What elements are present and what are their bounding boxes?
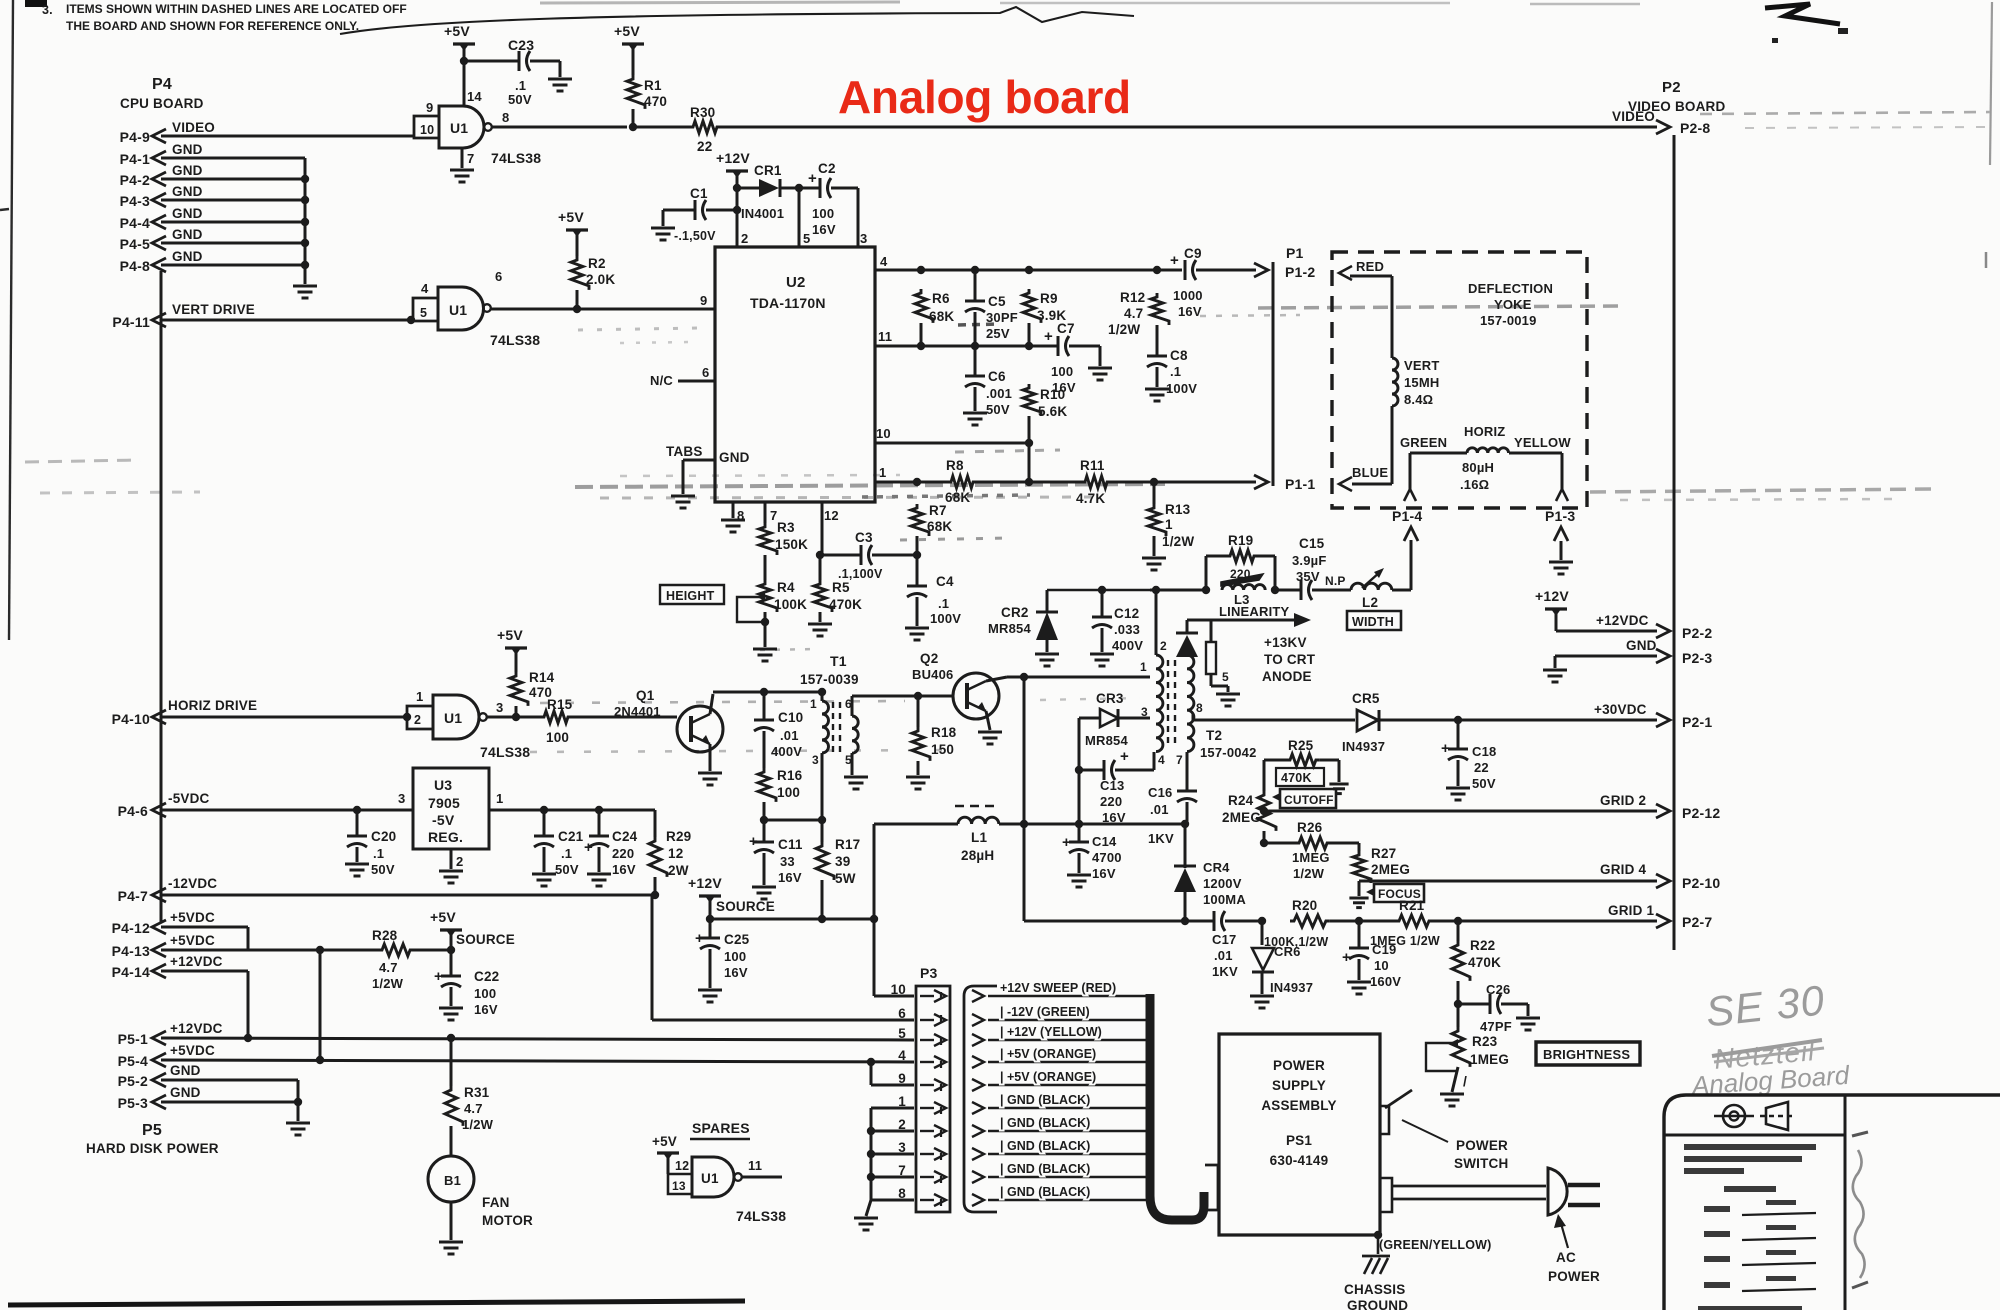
wire GND to P2-3 bbox=[1555, 656, 1657, 668]
label P2-2 bbox=[1682, 625, 1712, 641]
label U1A 74LS38 bbox=[491, 150, 541, 166]
wire -12VDC row bbox=[161, 894, 655, 897]
note text line 1 bbox=[66, 2, 407, 16]
label C1 bbox=[690, 186, 708, 201]
junction GND bus bbox=[301, 261, 309, 269]
connector pin P4-2 arrow bbox=[152, 172, 166, 186]
svg-text:IN4937: IN4937 bbox=[1270, 980, 1313, 995]
label C19 bbox=[1370, 942, 1401, 989]
junction R4 bottom bbox=[761, 618, 769, 626]
ground C21 bbox=[532, 874, 556, 886]
svg-text:157-0039: 157-0039 bbox=[800, 672, 859, 687]
wire Q2 collector up bbox=[986, 677, 1024, 681]
wire R24 bottom to R26 bbox=[1263, 831, 1266, 843]
wire P5-1 +12VDC row bbox=[161, 1038, 914, 1040]
wire C13 to T2 pin4 bbox=[1115, 752, 1154, 770]
svg-text:VIDEO BOARD: VIDEO BOARD bbox=[1628, 99, 1726, 114]
wire +12V down bbox=[736, 174, 739, 247]
svg-text:P4-5: P4-5 bbox=[120, 236, 150, 252]
svg-text:GND: GND bbox=[172, 206, 203, 221]
wire HORIZ DRIVE to U1 gate C bbox=[161, 716, 408, 719]
wire tie R16 to R17 bbox=[764, 819, 822, 822]
wire U3 output row bbox=[489, 809, 655, 812]
svg-text:C6: C6 bbox=[988, 369, 1006, 384]
svg-text:2: 2 bbox=[741, 231, 748, 246]
svg-text:16V: 16V bbox=[612, 862, 636, 877]
junction R17 source bbox=[818, 915, 826, 923]
connector pin P5-1 label bbox=[118, 1031, 148, 1047]
svg-text:| +12V (YELLOW): | +12V (YELLOW) bbox=[1000, 1025, 1102, 1039]
svg-text:R22: R22 bbox=[1470, 938, 1495, 953]
junction +12V source bbox=[706, 915, 714, 923]
wire P3 pin9 jog bbox=[871, 1062, 914, 1085]
label SOURCE mid bbox=[716, 899, 775, 914]
wire U1A pin7 to ground bbox=[462, 148, 474, 168]
svg-text:GND: GND bbox=[172, 249, 203, 264]
ground FOCUS bbox=[1349, 898, 1368, 908]
label U3 bbox=[428, 777, 463, 845]
capacitor C14 bbox=[1062, 824, 1089, 873]
label T2 pin1 bbox=[1140, 660, 1147, 674]
label U3 pin1 bbox=[496, 791, 503, 806]
wire GREEN to HORIZ coil bbox=[1410, 453, 1467, 489]
label P3 harness | +12V (YELLOW) bbox=[1000, 1025, 1102, 1039]
label HEIGHT box bbox=[660, 585, 724, 604]
wire U1D output bbox=[742, 1176, 782, 1179]
resistor R18 bbox=[912, 696, 930, 761]
transistor Q2 bbox=[953, 673, 999, 719]
label U1B pin4 bbox=[421, 281, 429, 296]
svg-text:P4-3: P4-3 bbox=[120, 193, 150, 209]
svg-text:2.0K: 2.0K bbox=[586, 272, 615, 287]
svg-text:R5: R5 bbox=[832, 580, 850, 595]
wire R21 to grid1 arrow bbox=[1433, 920, 1657, 923]
label R26 bbox=[1292, 820, 1330, 881]
svg-text:3: 3 bbox=[812, 753, 819, 767]
label YELLOW bbox=[1514, 435, 1571, 450]
svg-text:1KV: 1KV bbox=[1148, 831, 1174, 846]
label U2 pin5 bbox=[803, 231, 810, 246]
label C16 bbox=[1148, 785, 1174, 846]
svg-text:R25: R25 bbox=[1288, 738, 1314, 753]
arrow P3 right pin bbox=[972, 1079, 984, 1091]
svg-text:BU406: BU406 bbox=[912, 667, 953, 682]
label P3 pin 10 bbox=[891, 982, 906, 997]
capacitor C13 bbox=[1079, 748, 1129, 780]
op-amp U1 gate D body bbox=[692, 1157, 742, 1197]
wire U2 pin1 row left bbox=[875, 481, 947, 484]
svg-text:13: 13 bbox=[672, 1179, 686, 1193]
node GND label right bbox=[1626, 638, 1657, 653]
wire Q1 emitter to ground bbox=[709, 744, 712, 771]
resistor R7 bbox=[911, 504, 929, 555]
svg-text:P4-11: P4-11 bbox=[112, 314, 150, 330]
svg-text:P2-7: P2-7 bbox=[1682, 914, 1712, 930]
sheet border left bbox=[0, 0, 13, 640]
connector pin P4-6 arrow bbox=[152, 803, 166, 817]
wire GND P4-8 bbox=[161, 264, 305, 267]
wire +12V stem bbox=[709, 899, 712, 919]
svg-text:68K: 68K bbox=[927, 519, 952, 534]
svg-text:1KV: 1KV bbox=[1212, 964, 1238, 979]
svg-text:100: 100 bbox=[812, 206, 834, 221]
junction R26 left bbox=[1260, 839, 1268, 847]
label LINEARITY bbox=[1219, 604, 1290, 619]
arrow AC plug callout bbox=[1554, 1214, 1568, 1248]
connector pin P5-3 arrow bbox=[152, 1095, 166, 1109]
wire P5-4 +5VDC row bbox=[161, 1060, 914, 1062]
resistor R22 bbox=[1452, 921, 1470, 981]
svg-text:+5V: +5V bbox=[652, 1134, 677, 1149]
svg-text:4: 4 bbox=[880, 254, 888, 269]
arrow +13KV bbox=[1294, 613, 1311, 627]
top edge scan dashes bbox=[540, 2, 1640, 4]
svg-text:P4-13: P4-13 bbox=[112, 943, 150, 959]
svg-text:CUTOFF: CUTOFF bbox=[1284, 793, 1334, 807]
svg-text:TDA-1170N: TDA-1170N bbox=[750, 295, 826, 311]
label CR4 bbox=[1203, 860, 1246, 907]
label R28 bbox=[372, 928, 404, 991]
inductor L2 variable bbox=[1351, 568, 1392, 590]
svg-text:3: 3 bbox=[496, 700, 503, 715]
connector pin P4-9 label bbox=[120, 129, 150, 145]
label U1D pin11 bbox=[748, 1158, 762, 1173]
op-amp U1 gate D input box bbox=[668, 1174, 692, 1194]
wire C23 left bbox=[464, 60, 519, 63]
resistor R28 bbox=[378, 944, 414, 956]
svg-text:3.: 3. bbox=[42, 3, 53, 17]
svg-text:P2-10: P2-10 bbox=[1682, 875, 1720, 891]
label BRIGHTNESS box bbox=[1536, 1042, 1640, 1065]
resistor R1 bbox=[627, 75, 645, 109]
resistor R27 bbox=[1353, 843, 1371, 883]
svg-text:.1: .1 bbox=[1170, 364, 1181, 379]
transformer T1 core bbox=[833, 702, 840, 752]
svg-text:C4: C4 bbox=[936, 574, 954, 589]
junction C10 top bbox=[760, 688, 768, 696]
svg-text:2: 2 bbox=[414, 713, 421, 727]
svg-text:C9: C9 bbox=[1184, 246, 1202, 261]
junction GND bus bbox=[301, 239, 309, 247]
inductor L3 bbox=[1222, 585, 1265, 590]
junction L1 Q2 vertical bbox=[1020, 820, 1028, 828]
wire R12 to C8 bbox=[1156, 325, 1159, 356]
junction GND bus bbox=[301, 218, 309, 226]
arrow P3 pin 4 bbox=[920, 1056, 946, 1068]
junction R8 R11 node bbox=[1025, 478, 1033, 486]
diode CR5 bbox=[1357, 710, 1379, 731]
arrow P3 right pin bbox=[972, 1056, 984, 1068]
node +30VDC label bbox=[1594, 702, 1647, 717]
svg-text:P4-2: P4-2 bbox=[120, 172, 150, 188]
arrow P3 pin 1 bbox=[920, 1102, 946, 1114]
svg-text:BRIGHTNESS: BRIGHTNESS bbox=[1543, 1047, 1630, 1062]
svg-text:22: 22 bbox=[697, 139, 712, 154]
svg-text:1200V: 1200V bbox=[1203, 876, 1242, 891]
svg-text:C17: C17 bbox=[1212, 932, 1236, 947]
svg-text:470: 470 bbox=[644, 94, 667, 109]
wire CR1 cathode to pin5 node bbox=[780, 187, 799, 190]
power +12V for U2 bbox=[716, 150, 750, 178]
junction T2 pin2 top bbox=[1152, 586, 1160, 594]
svg-text:220: 220 bbox=[1100, 794, 1122, 809]
svg-text:C3: C3 bbox=[855, 530, 873, 545]
svg-text:+: + bbox=[584, 839, 593, 856]
svg-text:+: + bbox=[808, 170, 817, 187]
resistor bleeder bbox=[1206, 620, 1216, 686]
svg-text:16V: 16V bbox=[474, 1002, 498, 1017]
svg-text:T1: T1 bbox=[830, 653, 847, 669]
svg-text:50V: 50V bbox=[1472, 776, 1496, 791]
pin GREEN yoke bbox=[1404, 489, 1416, 501]
svg-text:39: 39 bbox=[835, 854, 850, 869]
label C17 bbox=[1212, 932, 1238, 979]
label R1 bbox=[644, 78, 667, 109]
op-amp U1 gate A input box bbox=[414, 116, 439, 138]
svg-text:VERT DRIVE: VERT DRIVE bbox=[172, 302, 255, 317]
svg-text:10: 10 bbox=[876, 426, 891, 441]
svg-text:P5: P5 bbox=[142, 1122, 162, 1139]
label R2 bbox=[586, 256, 615, 287]
resistor R25 bbox=[1264, 754, 1339, 766]
svg-text:+12V: +12V bbox=[1535, 588, 1569, 604]
svg-text:C1: C1 bbox=[690, 186, 708, 201]
scan streak band right bbox=[1590, 489, 1935, 500]
capacitor C19 bbox=[1342, 921, 1369, 980]
capacitor C25 bbox=[695, 919, 720, 988]
wire L2 to P1-4 riser bbox=[1392, 540, 1411, 590]
svg-text:630-4149: 630-4149 bbox=[1270, 1153, 1329, 1168]
svg-text:MR854: MR854 bbox=[1085, 733, 1128, 748]
label U2 GND bbox=[719, 450, 750, 465]
connector pin P4-6 label bbox=[118, 803, 148, 819]
svg-text:POWER: POWER bbox=[1456, 1138, 1508, 1153]
label FAN MOTOR bbox=[482, 1195, 533, 1228]
connector pin P4-4 label bbox=[120, 215, 150, 231]
capacitor C23 bbox=[519, 51, 530, 71]
wire C1 to +12V stem bbox=[706, 209, 737, 212]
scan streak band center bbox=[575, 475, 1165, 498]
capacitor C10 bbox=[754, 692, 774, 768]
connector pin P5-3 label bbox=[118, 1095, 148, 1111]
svg-text:R16: R16 bbox=[777, 768, 803, 783]
svg-text:.1: .1 bbox=[515, 78, 526, 93]
junction CR4 grid1 bbox=[1181, 917, 1189, 925]
ground C1 bbox=[651, 228, 675, 240]
resistor R11 bbox=[1081, 476, 1111, 488]
label C25 bbox=[724, 932, 750, 980]
arrow P3 pin 5 bbox=[920, 1034, 946, 1046]
svg-text:C14: C14 bbox=[1092, 834, 1117, 849]
svg-text:C11: C11 bbox=[778, 837, 803, 852]
svg-text:P5-4: P5-4 bbox=[118, 1053, 148, 1069]
connector pin P4-8 arrow bbox=[152, 258, 166, 272]
pin YELLOW yoke bbox=[1556, 489, 1568, 501]
wire RED to vert coil bbox=[1350, 276, 1392, 358]
svg-text:47PF: 47PF bbox=[1480, 1019, 1512, 1034]
label C11 bbox=[778, 837, 803, 885]
wire U2 pin8 to ground bbox=[733, 502, 744, 523]
label +13KV bbox=[1262, 635, 1316, 684]
svg-text:AC: AC bbox=[1556, 1250, 1576, 1265]
wire R29 to -12V rail bbox=[654, 877, 657, 895]
svg-text:+: + bbox=[1170, 252, 1179, 269]
svg-text:7: 7 bbox=[467, 151, 474, 166]
svg-text:7905: 7905 bbox=[428, 795, 460, 811]
label C10 bbox=[771, 710, 803, 759]
connector pin P4-7 arrow bbox=[152, 888, 166, 902]
label U2 pin6 N/C bbox=[650, 365, 715, 388]
pot R24 wiper CUTOFF box bbox=[1272, 789, 1336, 808]
svg-text:SOURCE: SOURCE bbox=[456, 932, 515, 947]
label U2 bbox=[786, 274, 806, 291]
svg-text:U3: U3 bbox=[434, 777, 452, 793]
connector pin P4-1 arrow bbox=[152, 151, 166, 165]
svg-text:9: 9 bbox=[898, 1071, 906, 1086]
junction P3 gnd bus bbox=[867, 1150, 875, 1158]
svg-text:SWITCH: SWITCH bbox=[1454, 1156, 1508, 1171]
svg-text:+: + bbox=[434, 968, 443, 985]
svg-text:+5V: +5V bbox=[430, 909, 456, 925]
title block divider bbox=[1844, 1095, 1847, 1310]
label R9 bbox=[1037, 291, 1066, 323]
label C5 bbox=[986, 294, 1018, 341]
wire +5V to R1 bbox=[632, 47, 635, 75]
connector pin P5-4 label bbox=[118, 1053, 148, 1069]
ic U2 box bbox=[715, 247, 875, 502]
resistor R6 bbox=[915, 289, 933, 323]
wire P3 harness row | GND (BLACK) bbox=[988, 1176, 1146, 1178]
connector pin P4-13 arrow bbox=[152, 943, 166, 957]
label P3 harness | +5V (ORANGE) bbox=[1000, 1070, 1096, 1084]
svg-text:100MA: 100MA bbox=[1203, 892, 1246, 907]
svg-text:WIDTH: WIDTH bbox=[1352, 615, 1394, 629]
svg-text:GND: GND bbox=[170, 1063, 201, 1078]
svg-text:+12V: +12V bbox=[716, 150, 750, 166]
title block blur text 1 bbox=[1684, 1144, 1816, 1174]
wire L3 to C15 bbox=[1275, 589, 1301, 592]
svg-text:3.9µF: 3.9µF bbox=[1292, 553, 1327, 568]
svg-text:MOTOR: MOTOR bbox=[482, 1213, 533, 1228]
svg-text:+5VDC: +5VDC bbox=[170, 1043, 215, 1058]
svg-text:L2: L2 bbox=[1362, 595, 1378, 610]
wire C26 to ground bbox=[1501, 1004, 1528, 1016]
capacitor C2 bbox=[808, 170, 831, 198]
label C9 bbox=[1173, 246, 1203, 319]
node +5VDC label P4-13 bbox=[170, 933, 215, 948]
svg-text:C22: C22 bbox=[474, 969, 499, 984]
connector pin P4-11 label bbox=[112, 314, 150, 330]
diode CR2 bbox=[1036, 590, 1058, 652]
power +5V for U1A bbox=[444, 23, 475, 51]
ic U3 7905 box bbox=[413, 768, 489, 849]
handwriting Analog Board bbox=[1689, 1060, 1852, 1101]
label U2 pin4 bbox=[880, 254, 888, 269]
svg-text:C26: C26 bbox=[1486, 982, 1510, 997]
svg-text:-5VDC: -5VDC bbox=[168, 791, 210, 806]
svg-text:470K: 470K bbox=[1468, 955, 1501, 970]
junction pin4 C5 bbox=[971, 266, 979, 274]
wire +5V to R14 bbox=[515, 651, 518, 672]
label P1-4 bbox=[1392, 508, 1422, 524]
note underline squiggle bbox=[340, 7, 1134, 34]
node -5VDC label bbox=[168, 791, 210, 806]
wire P3 GND bus bbox=[871, 1108, 914, 1200]
svg-text:R28: R28 bbox=[372, 928, 398, 943]
ground Q2 bbox=[978, 732, 1002, 744]
arrow up P1-3 bbox=[1554, 527, 1568, 560]
resistor R2 bbox=[571, 256, 589, 290]
inductor HORIZ bbox=[1467, 448, 1509, 453]
svg-text:+: + bbox=[695, 930, 704, 947]
label C7 bbox=[1051, 321, 1076, 395]
connector pin P4-4 arrow bbox=[152, 215, 166, 229]
svg-text:+30VDC: +30VDC bbox=[1594, 702, 1647, 717]
resistor R29 bbox=[649, 810, 667, 877]
connector pin P4-8 label bbox=[120, 258, 150, 274]
scan specks noise 1 bbox=[862, 324, 1030, 540]
transformer T2 core bbox=[1168, 660, 1175, 748]
svg-text:+12VDC: +12VDC bbox=[170, 1021, 223, 1036]
connector pin P4-2 label bbox=[120, 172, 150, 188]
wire P4-13 row bbox=[161, 949, 378, 952]
wire P3 harness row | -12V (GREEN) bbox=[988, 1019, 1146, 1021]
wire pin5 stem bbox=[798, 188, 801, 247]
wire GND P4-3 bbox=[161, 199, 305, 202]
junction P5-1 fan riser bbox=[447, 1034, 455, 1042]
resistor R20 bbox=[1290, 915, 1330, 927]
label P3 harness | GND (BLACK) bbox=[1000, 1185, 1090, 1199]
wire P3 harness row | GND (BLACK) bbox=[988, 1199, 1146, 1201]
svg-text:400V: 400V bbox=[771, 744, 802, 759]
svg-text:8: 8 bbox=[502, 110, 509, 125]
wire U3 pin2 to ground bbox=[450, 849, 453, 869]
ground C6 bbox=[963, 413, 987, 425]
svg-text:160V: 160V bbox=[1370, 974, 1401, 989]
label R8 bbox=[945, 458, 970, 505]
label P3 pin 8 bbox=[898, 1186, 906, 1201]
svg-text:1: 1 bbox=[1165, 517, 1173, 532]
capacitor C12 bbox=[1092, 590, 1112, 652]
label DEFLECTION YOKE bbox=[1468, 281, 1553, 328]
capacitor C17 bbox=[1214, 911, 1262, 931]
arrow into P2-1 bbox=[1656, 713, 1670, 727]
svg-text:12: 12 bbox=[675, 1159, 689, 1173]
ground C19 bbox=[1347, 982, 1371, 994]
svg-text:5: 5 bbox=[803, 231, 810, 246]
ground C25 bbox=[698, 990, 722, 1002]
label P1-1 bbox=[1285, 476, 1315, 492]
wire vert coil to BLUE bbox=[1352, 406, 1392, 484]
label P3 harness | GND (BLACK) bbox=[1000, 1116, 1090, 1130]
arrow into P2-7 bbox=[1656, 914, 1670, 928]
svg-text:33: 33 bbox=[780, 854, 795, 869]
resistor R4 potentiometer bbox=[759, 580, 777, 612]
label R10 bbox=[1038, 387, 1067, 419]
wire grid1 rail left bbox=[1024, 920, 1214, 923]
svg-text:+5VDC: +5VDC bbox=[170, 933, 215, 948]
scan streak yoke box bbox=[1200, 306, 1618, 316]
capacitor C24 bbox=[584, 810, 609, 872]
label U1C pin1 bbox=[416, 689, 423, 704]
label R4 bbox=[774, 580, 807, 612]
svg-text:GND: GND bbox=[719, 450, 750, 465]
svg-text:1MEG 1/2W: 1MEG 1/2W bbox=[1370, 934, 1440, 948]
label CR3 bbox=[1085, 691, 1128, 748]
wire C3 left bbox=[820, 554, 861, 557]
svg-text:P2-1: P2-1 bbox=[1682, 714, 1712, 730]
junction L3 right bbox=[1271, 586, 1279, 594]
